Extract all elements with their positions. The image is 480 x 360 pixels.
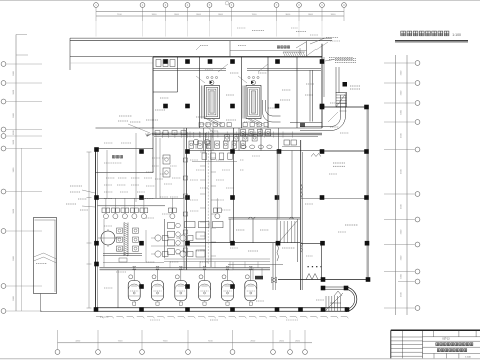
stall row mid — [225, 135, 230, 142]
annots top right — [335, 58, 356, 60]
stall right fixtures — [284, 140, 290, 145]
toilet stalls upper — [241, 130, 246, 136]
pump units — [117, 228, 123, 233]
bottom labels — [100, 316, 109, 318]
stair bottom right — [325, 296, 327, 311]
svg-text:3600: 3600 — [308, 14, 314, 16]
room labels cells — [236, 229, 245, 231]
svg-text:7100: 7100 — [117, 14, 123, 16]
svg-text:3600: 3600 — [331, 14, 337, 16]
kitchen left wall — [95, 148, 97, 311]
svg-text:3600: 3600 — [285, 14, 291, 16]
annot dense top-right — [329, 57, 353, 59]
center risers — [205, 133, 207, 267]
annots kitchen left — [104, 142, 113, 144]
pedestal basins — [193, 139, 199, 145]
svg-text:3600: 3600 — [196, 14, 202, 16]
kettle feed pipes — [100, 267, 271, 269]
svg-text:7200: 7200 — [118, 341, 124, 343]
toilet stalls lower — [189, 141, 194, 148]
svg-text:1:100: 1:100 — [452, 33, 461, 37]
elbow duct — [263, 100, 281, 122]
top grid ruler — [96, 10, 344, 12]
sinks — [241, 145, 246, 149]
lower band links — [184, 269, 233, 271]
riser right — [291, 151, 293, 220]
main pipe band — [152, 132, 322, 134]
right grid ruler — [395, 55, 397, 315]
door dots — [308, 266, 309, 267]
pipe right kitchen — [272, 243, 274, 290]
cooking kettles — [128, 281, 140, 301]
left grid ruler — [15, 35, 17, 312]
svg-text:7200: 7200 — [208, 341, 214, 343]
kitchen lower labels — [116, 271, 126, 273]
dim line local left — [88, 152, 90, 308]
boiler unit 1 — [205, 86, 220, 119]
section hatch bottom — [96, 316, 102, 318]
right annex — [322, 106, 367, 108]
svg-text:3600: 3600 — [152, 14, 158, 16]
hatched wall strip — [124, 223, 128, 225]
kettle valves — [133, 266, 136, 269]
boiler room fixtures — [199, 123, 203, 127]
annots mid kitchen — [190, 159, 198, 161]
svg-text:03T-13: 03T-13 — [442, 339, 450, 341]
annots toilet band — [119, 115, 132, 117]
upper hall labels — [350, 85, 360, 87]
prep equipment cluster — [155, 235, 161, 241]
fixtures below band left — [163, 155, 170, 164]
toilet band walls — [187, 150, 323, 152]
stair mid (cell 3) — [280, 221, 282, 243]
svg-text:2600: 2600 — [295, 341, 301, 343]
canopy strip — [70, 37, 332, 39]
bottom wall — [96, 307, 348, 309]
break symbols — [306, 274, 318, 280]
annots outside left — [70, 185, 82, 187]
stair top right — [335, 67, 337, 93]
stove stack — [164, 219, 166, 258]
corridor fittings — [183, 158, 188, 162]
svg-text:2600: 2600 — [279, 341, 285, 343]
structural columns — [163, 59, 168, 64]
risers left — [155, 138, 157, 198]
svg-text:7500: 7500 — [163, 341, 169, 343]
bottom grid ruler — [58, 342, 313, 344]
svg-text:3600: 3600 — [218, 14, 224, 16]
annots upper block — [160, 97, 169, 99]
wall x278 — [276, 151, 278, 220]
upper room dividers — [177, 57, 179, 92]
outdoor pit — [34, 218, 57, 294]
round table — [101, 231, 115, 245]
wash stations — [102, 208, 106, 213]
canopy room — [229, 41, 231, 57]
svg-text:7000: 7000 — [252, 14, 258, 16]
svg-text:2600: 2600 — [250, 341, 256, 343]
vert duct x310 — [309, 70, 311, 121]
prep tables — [185, 222, 196, 228]
partition lower left — [103, 253, 142, 255]
title block table — [391, 329, 480, 331]
hall labels — [333, 162, 345, 164]
room A upper left — [96, 148, 154, 150]
svg-text:3600: 3600 — [174, 14, 180, 16]
canopy hatch — [283, 52, 285, 56]
ramp curve — [346, 287, 357, 312]
second fixture row — [202, 153, 207, 159]
boiler unit 2 — [246, 86, 261, 119]
svg-text:4450: 4450 — [75, 341, 81, 343]
page bottom edge — [0, 358, 480, 360]
lower band extra — [164, 258, 270, 260]
duct to hall — [300, 126, 331, 128]
wash pipe — [98, 197, 185, 199]
right annex labels — [330, 126, 339, 128]
unit leaders — [218, 64, 228, 72]
upper block walls — [153, 56, 322, 58]
kettle labels — [130, 290, 138, 292]
room1 fixtures — [156, 60, 161, 67]
kettle drains — [133, 302, 136, 305]
drawing title — [401, 31, 406, 36]
mid kitchen rooms — [229, 218, 301, 220]
hall walls — [301, 242, 322, 244]
dishwash room wall — [117, 270, 119, 308]
boxes on pipe band — [155, 131, 160, 135]
